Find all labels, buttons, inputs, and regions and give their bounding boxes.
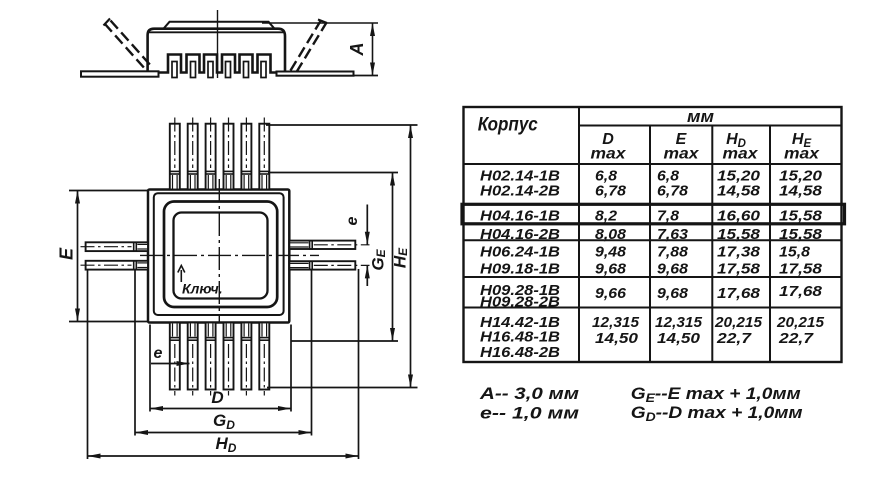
right lead lower [289, 261, 369, 271]
top lead 4 [223, 118, 234, 190]
svg-text:А-- 3,0 мм: А-- 3,0 мм [479, 385, 579, 403]
svg-text:12,315: 12,315 [592, 315, 640, 331]
top lead 6 [259, 118, 270, 190]
left leads [81, 242, 149, 270]
svg-text:6,8: 6,8 [595, 168, 618, 184]
e right arrows [365, 232, 370, 245]
table row line 2 [464, 223, 842, 225]
table row line 1 [464, 204, 842, 206]
svg-text:A: A [347, 43, 367, 57]
svg-text:15,58: 15,58 [717, 227, 761, 243]
TOP VIEW [140, 179, 319, 324]
dimension GE top extension [268, 172, 398, 174]
HE arrows [408, 125, 413, 138]
svg-text:6,78: 6,78 [595, 184, 627, 200]
key mark arrow [178, 266, 185, 283]
package body rim [154, 193, 284, 315]
svg-text:17,38: 17,38 [717, 245, 761, 261]
package lid outer [164, 202, 277, 308]
table row line 3 [464, 239, 842, 241]
dimension E line [77, 191, 79, 322]
svg-text:GE--E max + 1,0мм: GE--E max + 1,0мм [631, 384, 801, 405]
svg-text:7,63: 7,63 [657, 227, 688, 243]
LEGEND [479, 384, 803, 424]
bottom lead 3 [205, 323, 216, 396]
side view right raised lead (dashed) [291, 21, 327, 72]
svg-text:7,88: 7,88 [657, 245, 689, 261]
svg-text:E: E [57, 247, 77, 260]
svg-text:16,60: 16,60 [717, 209, 760, 225]
E arrows [75, 191, 80, 204]
bottom leads [169, 323, 269, 396]
dimension arrowheads [75, 125, 413, 459]
svg-text:Н02.14-2В: Н02.14-2В [480, 184, 560, 200]
svg-text:Ключ.: Ключ. [182, 281, 223, 297]
svg-text:Н09.18-1В: Н09.18-1В [480, 262, 560, 278]
legend GE definition [631, 384, 801, 405]
svg-text:e: e [154, 345, 163, 362]
svg-text:14,58: 14,58 [717, 184, 761, 200]
svg-text:15,20: 15,20 [717, 168, 760, 184]
svg-text:17,68: 17,68 [779, 284, 823, 300]
svg-text:15,20: 15,20 [779, 168, 822, 184]
svg-text:Н09.28-2В: Н09.28-2В [480, 295, 560, 311]
dimension GE bottom extension [291, 340, 398, 342]
side view right raised lead tip cap [318, 20, 327, 24]
dimension HD line [88, 455, 359, 457]
dimension A arrows [370, 23, 375, 76]
svg-text:6,8: 6,8 [657, 168, 680, 184]
svg-text:8,08: 8,08 [595, 227, 627, 243]
dimension HE top extension [266, 124, 418, 126]
table row line 4 [464, 276, 842, 278]
bottom lead 4 [223, 323, 234, 396]
top lead 3 [205, 118, 216, 190]
dimension e right upper line [366, 205, 368, 245]
svg-text:20,215: 20,215 [776, 315, 825, 331]
dimension GD extension lines [134, 271, 136, 436]
DIMENSIONS of top view [69, 125, 418, 459]
svg-text:22,7: 22,7 [778, 331, 814, 347]
svg-text:7,8: 7,8 [657, 209, 680, 225]
dimension E extension lines [69, 190, 148, 192]
svg-text:HE: HE [391, 247, 411, 268]
dimension HE bottom extension [267, 387, 418, 389]
svg-text:мм: мм [687, 107, 714, 126]
highlight box around row Н04.16-1В [462, 204, 845, 224]
svg-text:9,48: 9,48 [595, 245, 627, 261]
top lead 5 [241, 118, 252, 190]
left lead lower [81, 260, 149, 270]
GE arrows [390, 173, 395, 186]
svg-text:е-- 1,0 мм: е-- 1,0 мм [480, 404, 579, 422]
top lead 2 [187, 118, 198, 190]
HD arrows [88, 454, 101, 459]
side view right flat lead [277, 72, 354, 76]
dimension GD line [135, 432, 312, 434]
svg-text:17,58: 17,58 [717, 262, 761, 278]
table row line under мм [579, 125, 842, 127]
GD arrows [135, 430, 148, 435]
svg-text:15,58: 15,58 [779, 209, 823, 225]
bottom lead 1 [170, 323, 180, 390]
svg-text:22,7: 22,7 [716, 331, 752, 347]
dimension D line [150, 408, 291, 410]
TABLE [462, 107, 845, 362]
svg-text:max: max [664, 146, 700, 163]
vertical center line [218, 179, 220, 324]
svg-text:Н02.14-1В: Н02.14-1В [480, 168, 560, 184]
bottom lead 2 [187, 323, 198, 396]
svg-text:GD: GD [213, 411, 235, 432]
svg-text:max: max [591, 146, 627, 163]
svg-text:Н04.16-2В: Н04.16-2В [480, 227, 560, 243]
svg-text:14,58: 14,58 [779, 184, 823, 200]
svg-text:Н06.24-1В: Н06.24-1В [480, 245, 560, 261]
dimension HE line [410, 125, 412, 388]
dimension A bottom extension line [353, 75, 378, 77]
e bottom arrow [177, 361, 190, 366]
side view left raised lead (dashed) [105, 21, 153, 71]
svg-text:8,2: 8,2 [595, 209, 617, 225]
side view lead feet [172, 62, 266, 78]
svg-text:GE: GE [369, 248, 389, 270]
svg-text:Н16.48-2В: Н16.48-2В [480, 345, 560, 361]
right lead upper [289, 241, 355, 249]
package lid inner [174, 213, 268, 299]
side view center line [217, 10, 219, 78]
left lead upper [86, 242, 148, 251]
side view lid [164, 22, 275, 29]
bottom lead 6 [259, 323, 270, 396]
table outer frame [464, 107, 842, 362]
svg-text:GD--D max + 1,0мм: GD--D max + 1,0мм [631, 403, 803, 424]
table column line 2 [649, 126, 651, 363]
table text [478, 107, 825, 361]
side view bottom lead bends (square wave) [159, 55, 277, 73]
svg-text:D: D [211, 388, 223, 407]
svg-text:6,78: 6,78 [657, 184, 689, 200]
right leads [289, 240, 369, 270]
table column line 3 [711, 126, 713, 363]
svg-text:max: max [784, 146, 820, 163]
svg-text:9,68: 9,68 [657, 286, 689, 302]
side view body rim line [149, 31, 284, 33]
svg-text:9,68: 9,68 [595, 262, 627, 278]
top lead 1 [170, 124, 180, 190]
table column line 1 (after Корпус) [578, 107, 580, 362]
svg-text:Корпус: Корпус [478, 115, 538, 136]
svg-text:Н16.48-1В: Н16.48-1В [480, 330, 560, 346]
svg-text:15,58: 15,58 [779, 227, 823, 243]
legend GD definition [631, 403, 803, 424]
package body outer square [148, 190, 289, 323]
bottom lead 5 [241, 323, 252, 396]
svg-text:14,50: 14,50 [595, 331, 638, 347]
dimension HD extension lines [87, 271, 89, 460]
svg-text:14,50: 14,50 [657, 331, 700, 347]
dimension A line [372, 23, 374, 76]
side view left raised lead tip cap [104, 19, 111, 26]
svg-text:20,215: 20,215 [714, 315, 763, 331]
svg-text:17,58: 17,58 [779, 262, 823, 278]
svg-text:Н04.16-1В: Н04.16-1В [480, 209, 560, 225]
top leads [169, 118, 269, 190]
dimension labels [57, 216, 411, 455]
dimension GE line [392, 173, 394, 342]
horizontal center line [140, 254, 319, 256]
svg-text:e: e [344, 216, 361, 225]
svg-text:9,66: 9,66 [595, 286, 627, 302]
svg-text:9,68: 9,68 [657, 262, 689, 278]
dimension A top extension line [262, 22, 378, 24]
side view package body [148, 29, 285, 72]
svg-text:12,315: 12,315 [655, 315, 703, 331]
dimension D extension lines [149, 325, 151, 412]
table row line 5 [464, 307, 842, 309]
table column line 4 [769, 126, 771, 363]
svg-text:max: max [723, 146, 759, 163]
svg-text:17,68: 17,68 [717, 286, 761, 302]
svg-text:HD: HD [216, 434, 237, 455]
side view left flat lead [81, 71, 159, 76]
D arrows [150, 406, 163, 411]
table header bottom line [464, 163, 842, 165]
dimension e bottom line [151, 363, 190, 365]
dimension e right lower line [366, 265, 368, 286]
svg-text:15,8: 15,8 [779, 245, 811, 261]
